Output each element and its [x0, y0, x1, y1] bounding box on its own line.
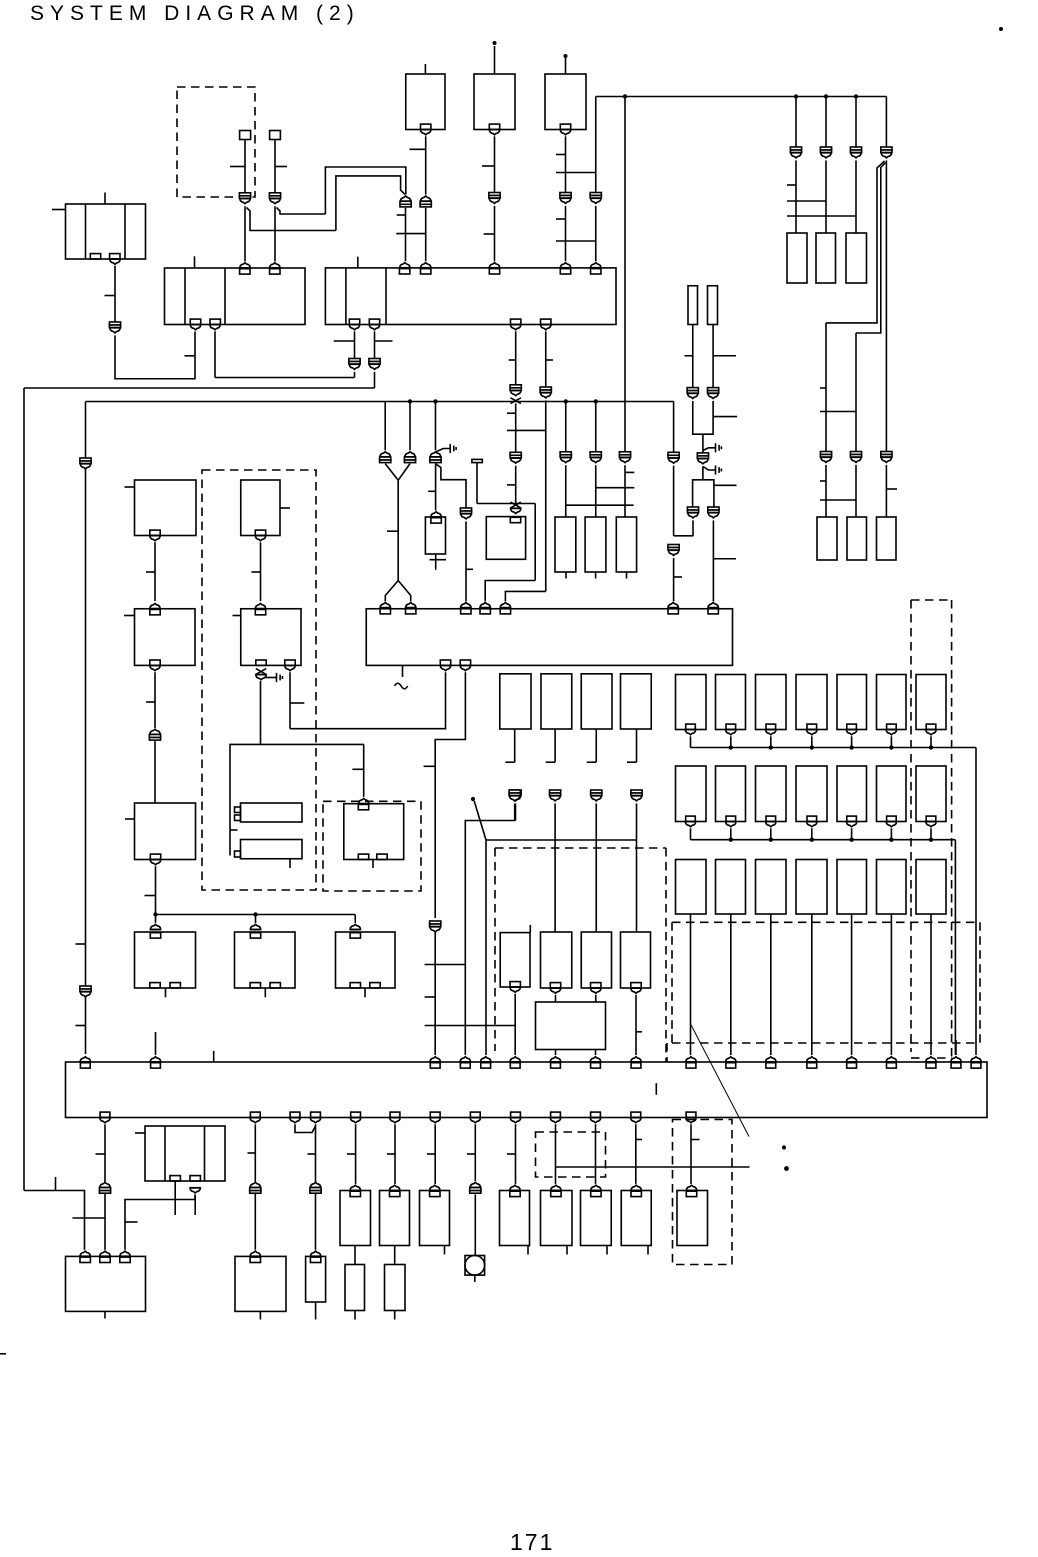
wire x635 bus to RW4 — [636, 840, 638, 932]
box B4R bottom tab 2 — [270, 983, 280, 988]
wire x673 upper — [673, 402, 675, 453]
strap y241 — [556, 240, 596, 242]
wire x515 to elbow — [515, 803, 517, 820]
wire B4b elbow — [435, 672, 465, 918]
bus box bottom tab a — [290, 1112, 300, 1117]
tick R1 — [787, 184, 796, 186]
elbow x545 to B4 — [505, 591, 545, 601]
wire x595 low — [595, 402, 597, 452]
wire x856 — [855, 97, 857, 148]
connector on x85 — [80, 458, 91, 469]
box RD1-3 — [877, 675, 907, 730]
wire x260 a — [260, 542, 262, 601]
wire RD1-2 down — [851, 736, 853, 747]
box RW1 corner stub — [529, 925, 531, 933]
connector on x85 lower — [80, 986, 91, 997]
wire RC1-3 down — [770, 736, 772, 747]
box B3M bottom tab 1 — [358, 854, 368, 859]
antenna stub v2 — [435, 560, 437, 570]
bus box top tab p — [926, 1063, 936, 1068]
wire RC2-4 down — [811, 828, 813, 839]
wire x515 upper — [515, 331, 517, 388]
wire x826 — [825, 97, 827, 148]
box T1 — [66, 204, 146, 259]
box T1 left stub — [52, 209, 66, 211]
box RW1 bottom tab — [510, 982, 520, 987]
box B4L top tab — [150, 933, 160, 938]
wire x395 down — [394, 1124, 396, 1184]
dashed box D6 — [536, 1132, 606, 1177]
dashed box D4 left — [671, 922, 673, 1043]
bus box bottom tab d — [390, 1112, 400, 1117]
wire x595 bus to RW3 — [595, 840, 597, 932]
wire RC2-7 down — [930, 828, 932, 839]
connector under T2 pin1 — [190, 325, 201, 330]
box M7 — [621, 1191, 651, 1246]
box RC2-3 — [756, 766, 787, 822]
strap y216 — [787, 215, 856, 217]
strap y487 — [596, 487, 635, 489]
connector above B2L — [150, 603, 161, 608]
dashed box D3 left — [494, 848, 496, 1051]
box RD1-4 — [916, 675, 946, 730]
box RC2-5 — [837, 766, 867, 822]
connector onto bus box c — [430, 1057, 441, 1062]
connector N1 — [430, 452, 441, 463]
ground G2 — [703, 443, 722, 452]
connector onto bus box b — [150, 1057, 161, 1062]
connector onto bus box d — [460, 1057, 471, 1062]
bus box top tab f — [510, 1063, 520, 1068]
wire x435 down2 — [434, 1124, 436, 1184]
wire P1 down — [565, 465, 567, 517]
branch wire S1 right — [247, 208, 336, 231]
connector under RD1-3 — [886, 730, 897, 735]
connector above M8 — [686, 1185, 697, 1190]
connector onto bus box h — [590, 1057, 601, 1062]
box M5 — [541, 1191, 573, 1246]
connector onto bus box m — [806, 1057, 817, 1062]
long vertical x24 — [23, 388, 25, 1191]
box MB bottom tab 2 — [190, 1176, 200, 1181]
bus box top tab a — [80, 1063, 90, 1068]
wire M7 stub — [647, 1246, 649, 1255]
box RC3-6 — [877, 860, 907, 915]
box B4L — [135, 932, 196, 988]
dashed box DT top — [911, 599, 952, 601]
connector K4 — [560, 193, 571, 204]
terminal square S2 — [270, 131, 281, 140]
bus box bottom tab z2 — [250, 1112, 260, 1117]
tab B2 t4 — [560, 269, 570, 274]
box B2L bottom tab — [150, 660, 160, 665]
connector onto B4 tab5 — [500, 603, 511, 608]
crossover X 2 — [511, 502, 521, 508]
connector onto bus box n — [846, 1057, 857, 1062]
tab B2 t3 — [489, 269, 499, 274]
box T2 bottom tab 2 — [210, 319, 220, 324]
box B5M bottom stub — [364, 988, 366, 997]
box M6 top tab — [591, 1191, 601, 1196]
box LB bottom stub — [104, 1311, 106, 1318]
connector onto B2 tab1 — [399, 263, 410, 268]
connector V2a — [687, 507, 698, 518]
wire x477 down — [476, 463, 478, 504]
connector onto bus box a — [80, 1057, 91, 1062]
wire TW3 down — [595, 803, 597, 840]
wire V2a down — [692, 520, 694, 535]
box B2R top tab — [255, 609, 265, 614]
wire F1 down — [692, 325, 694, 388]
wire x673 mid — [673, 466, 675, 536]
strap y505 — [566, 504, 634, 506]
wire x290 down — [289, 672, 291, 729]
box TR3 stub — [626, 572, 628, 579]
box B5M bottom tab 1 — [350, 983, 360, 988]
box M3 top tab — [430, 1191, 440, 1196]
box T1 divider left — [85, 204, 87, 259]
connector under bus box b — [310, 1118, 321, 1123]
svg-text:SYSTEM DIAGRAM (2): SYSTEM DIAGRAM (2) — [30, 2, 360, 25]
wire x796 — [795, 97, 797, 148]
box RC1-1 bottom tab — [686, 724, 696, 729]
box SB2 top tab — [510, 517, 520, 522]
tick F1 — [685, 355, 693, 357]
connector above LB 2 — [100, 1251, 111, 1256]
wire x635 down2 — [635, 1124, 637, 1184]
connector S1 — [239, 193, 250, 204]
box M2 — [380, 1191, 410, 1246]
wire x24 elbow — [24, 1191, 85, 1250]
bus box top tab o — [887, 1063, 897, 1068]
box RC1-1 — [676, 675, 707, 730]
wire L1 to y377 — [354, 372, 356, 378]
fuse box F1 — [688, 286, 698, 325]
relay tab b1 — [235, 851, 241, 857]
connector U1b — [668, 545, 679, 556]
connector Q1 — [430, 921, 441, 932]
box TM2 — [474, 74, 515, 130]
crossover X under B2R — [256, 669, 266, 675]
connector under RC1-3 — [765, 730, 776, 735]
tick x625 — [625, 471, 634, 473]
box NB2 — [306, 1256, 326, 1302]
elbow x535 to B4 — [485, 581, 535, 602]
connector onto bus box g — [550, 1057, 561, 1062]
bus box top tab i — [631, 1063, 641, 1068]
connector above LB 1 — [80, 1251, 91, 1256]
connector Y left — [380, 452, 391, 463]
bus box top tab d — [460, 1063, 470, 1068]
connector under B2 b — [369, 325, 380, 330]
wire x691 down2 — [690, 1124, 692, 1184]
box RC3-3 — [756, 860, 787, 915]
connector under B4 b — [460, 665, 471, 670]
bus box top tab q — [951, 1063, 961, 1068]
wire P2 down — [595, 465, 597, 517]
wire K4 down — [565, 206, 567, 261]
connector onto bus box i — [631, 1057, 642, 1062]
long wire y388 — [24, 387, 375, 389]
bus y840 left — [486, 839, 637, 841]
connector R2b — [820, 452, 831, 463]
box TM1 bottom tab — [421, 124, 431, 129]
connector onto B4 tab3 — [460, 603, 471, 608]
box R3 — [846, 233, 867, 283]
tick Y stem — [387, 530, 398, 532]
tick x315 — [308, 1153, 316, 1155]
connector above NB2 — [310, 1251, 321, 1256]
wire x155 b — [154, 672, 156, 728]
connector under RD1-2 — [846, 730, 857, 735]
tick x355 — [347, 1153, 356, 1155]
tick wire B2a — [334, 340, 355, 342]
wire RC2-1 down — [690, 828, 692, 839]
connector AB1 — [310, 1182, 321, 1193]
box R4 — [817, 517, 837, 560]
wire x363 down — [363, 744, 365, 797]
wire M5 stub — [566, 1246, 568, 1255]
box B4L bottom tab 1 — [150, 983, 160, 988]
tick x886 — [886, 488, 897, 490]
box NR bottom stub — [259, 1311, 261, 1319]
connector F1b — [687, 388, 698, 399]
dashed box D2 — [323, 801, 421, 891]
wire RD1-4 down — [930, 736, 932, 747]
wire K2 down — [425, 208, 427, 261]
connector above NR — [250, 1251, 261, 1256]
junction y401 c — [564, 399, 568, 403]
wire x515 mid — [515, 404, 517, 453]
bus box bottom tab k — [686, 1112, 696, 1117]
strap y172 — [556, 172, 596, 174]
connector onto bus box p — [926, 1057, 937, 1062]
box B3M bottom tab 2 — [377, 854, 387, 859]
bus box top tab m — [807, 1063, 817, 1068]
wire x555 down2 — [555, 1124, 557, 1184]
connector above M6 — [591, 1185, 602, 1190]
strap y500 — [820, 499, 856, 501]
box RC2-6 — [877, 766, 907, 822]
box B2L — [135, 609, 196, 666]
connector above M7 — [631, 1185, 642, 1190]
ground G4 — [266, 673, 282, 682]
bus box bottom tab e — [430, 1112, 440, 1117]
tick U1 right — [713, 416, 737, 418]
twisted pair wire a — [826, 161, 885, 323]
box TM1 top stub — [424, 64, 426, 74]
junction y747 e — [889, 745, 893, 749]
box R6 — [877, 517, 897, 560]
box RW1 — [500, 933, 530, 987]
box MB left stub — [135, 1132, 145, 1134]
connector under RW2 — [550, 988, 561, 993]
box TM3 top stub — [565, 58, 567, 74]
box B1R — [241, 480, 280, 536]
box TM3 bottom tab — [560, 124, 570, 129]
wire x886 to box — [885, 465, 887, 517]
box RD1-3 bottom tab — [887, 724, 897, 729]
connector AB3 — [250, 1182, 261, 1193]
connector under B3L — [150, 860, 161, 865]
dashed box DT right — [951, 600, 953, 1058]
twisted pair wire b — [856, 163, 886, 334]
connector above T2 — [269, 263, 280, 268]
tick TR1w — [505, 761, 514, 763]
box RW2 — [541, 932, 572, 988]
tick on S1 wire — [230, 166, 245, 168]
connector TW1 — [509, 790, 520, 801]
box B4R — [235, 932, 296, 988]
connector under RD1-1 — [806, 730, 817, 735]
wire S2 down — [274, 140, 276, 193]
box RD1-2 — [837, 675, 867, 730]
box RC2-2 bottom tab — [726, 816, 736, 821]
wire RC3-4 down — [811, 914, 813, 1055]
box B5M — [336, 932, 396, 988]
tick x85 b — [76, 1025, 86, 1027]
tab B4 t1 — [380, 609, 390, 614]
bus box top tab h — [591, 1063, 601, 1068]
box RC2-7 bottom tab — [926, 816, 936, 821]
connector onto bus box r — [971, 1057, 982, 1062]
connector onto B2 tab5 — [590, 263, 601, 268]
dashed box D1 — [202, 470, 316, 890]
tick x691b — [691, 1139, 700, 1141]
connector under TM2 — [489, 130, 500, 135]
leader line 2 — [691, 1025, 749, 1137]
wire B2b down — [374, 331, 376, 358]
tick on x435 wire — [424, 765, 436, 767]
box RC3-1 — [676, 860, 707, 915]
box NR — [235, 1256, 286, 1311]
tick C4w — [627, 761, 637, 763]
box RC2-1 bottom tab — [686, 816, 696, 821]
antenna bar — [430, 559, 447, 561]
connector under RW3 — [590, 988, 601, 993]
box LB top tab 1 — [80, 1257, 90, 1262]
tick x155 a — [146, 571, 155, 573]
wire BB2 stub 1 — [555, 1050, 557, 1056]
wire x826 to box — [825, 465, 827, 517]
dashed box DT bottom — [911, 1057, 952, 1059]
box M2b — [385, 1265, 406, 1311]
junction y840 x730 — [729, 838, 733, 842]
wire RC3-2 down — [730, 914, 732, 1055]
box B1L — [135, 480, 197, 536]
wire C2 stub — [554, 729, 556, 762]
wire RC1-2 down — [730, 736, 732, 747]
tick C3w — [587, 761, 596, 763]
wire S2 lower — [274, 206, 276, 261]
tick x290 — [290, 702, 304, 704]
strap y430 — [507, 429, 546, 431]
relay B stub — [289, 859, 291, 868]
wire J1 to T2 — [115, 332, 195, 379]
box M7 top tab — [631, 1191, 641, 1196]
wire TW2 down — [554, 803, 556, 840]
connector under bus box e — [430, 1118, 441, 1123]
cross strap y233 — [396, 233, 425, 235]
box MB divider 2 — [204, 1126, 206, 1181]
leader line 1 — [474, 801, 486, 840]
tick on S2 wire — [275, 166, 287, 168]
wire P3 down — [624, 465, 626, 517]
box B4 main — [366, 609, 732, 666]
box B1L bottom tab — [150, 530, 160, 535]
wire x886 — [885, 97, 887, 148]
wire T1 down — [114, 266, 116, 322]
long vertical x85 — [85, 402, 87, 1055]
wire x260 elbow — [230, 681, 261, 856]
box B3L left stub — [125, 818, 135, 820]
bus box bottom tab j — [631, 1112, 641, 1117]
box RC2-4 bottom tab — [807, 816, 817, 821]
box LB — [66, 1256, 146, 1311]
junction y747 d — [849, 745, 853, 749]
wire x856 lower — [855, 333, 857, 452]
tick x125 — [125, 1221, 138, 1223]
box B4 bottom tab b — [460, 660, 470, 665]
bus box top tab g — [551, 1063, 561, 1068]
box M6 — [581, 1191, 612, 1246]
box M1 — [340, 1191, 371, 1246]
box RC1-3 bottom tab — [766, 724, 776, 729]
wire K3 down — [494, 206, 496, 261]
bus box top tab l — [766, 1063, 776, 1068]
connector above B4L — [150, 924, 161, 929]
wire M3 stub — [444, 1246, 446, 1255]
elbow wire outer — [325, 167, 405, 214]
wire x155 a — [154, 542, 156, 601]
connector under bus box h — [550, 1118, 561, 1123]
wire Y stem — [397, 480, 399, 580]
tab B4 t3 — [461, 609, 471, 614]
tick x155 b — [146, 701, 155, 703]
junction y747 a — [729, 745, 733, 749]
wire TM2 down — [494, 136, 496, 192]
main bus y401 — [86, 401, 674, 403]
connector S2 — [269, 193, 280, 204]
wire TR1 stub down — [514, 729, 516, 762]
connector under RC2-1 — [685, 822, 696, 827]
strap y1167 — [556, 1166, 750, 1168]
connector onto bus box l — [765, 1057, 776, 1062]
box M8 top tab — [686, 1191, 696, 1196]
connector under B1R — [255, 536, 266, 541]
wire TW1 down — [514, 803, 516, 820]
wire x826 lower — [825, 323, 827, 452]
box RD1-4 bottom tab — [926, 724, 936, 729]
box B5M top tab — [350, 933, 360, 938]
connector onto B4 tab6 — [668, 603, 679, 608]
wire RW2 down — [555, 995, 557, 1002]
connector under bus box f — [470, 1118, 481, 1123]
wire x956 stub — [955, 1040, 957, 1055]
relay tab a2 — [235, 815, 241, 821]
wire x255 stub — [255, 915, 257, 923]
wire BB2 stub 2 — [595, 1050, 597, 1056]
box RW3 bottom tab — [591, 983, 601, 988]
wire Y left diag — [385, 464, 398, 481]
strap y411 — [820, 411, 856, 413]
box RW2 bottom tab — [550, 983, 560, 988]
dashed box DT left — [910, 600, 912, 1052]
stub x55 — [55, 1177, 57, 1191]
junction y401 a — [408, 399, 412, 403]
tick x515d — [507, 1153, 516, 1155]
jog x295 — [295, 1124, 316, 1132]
